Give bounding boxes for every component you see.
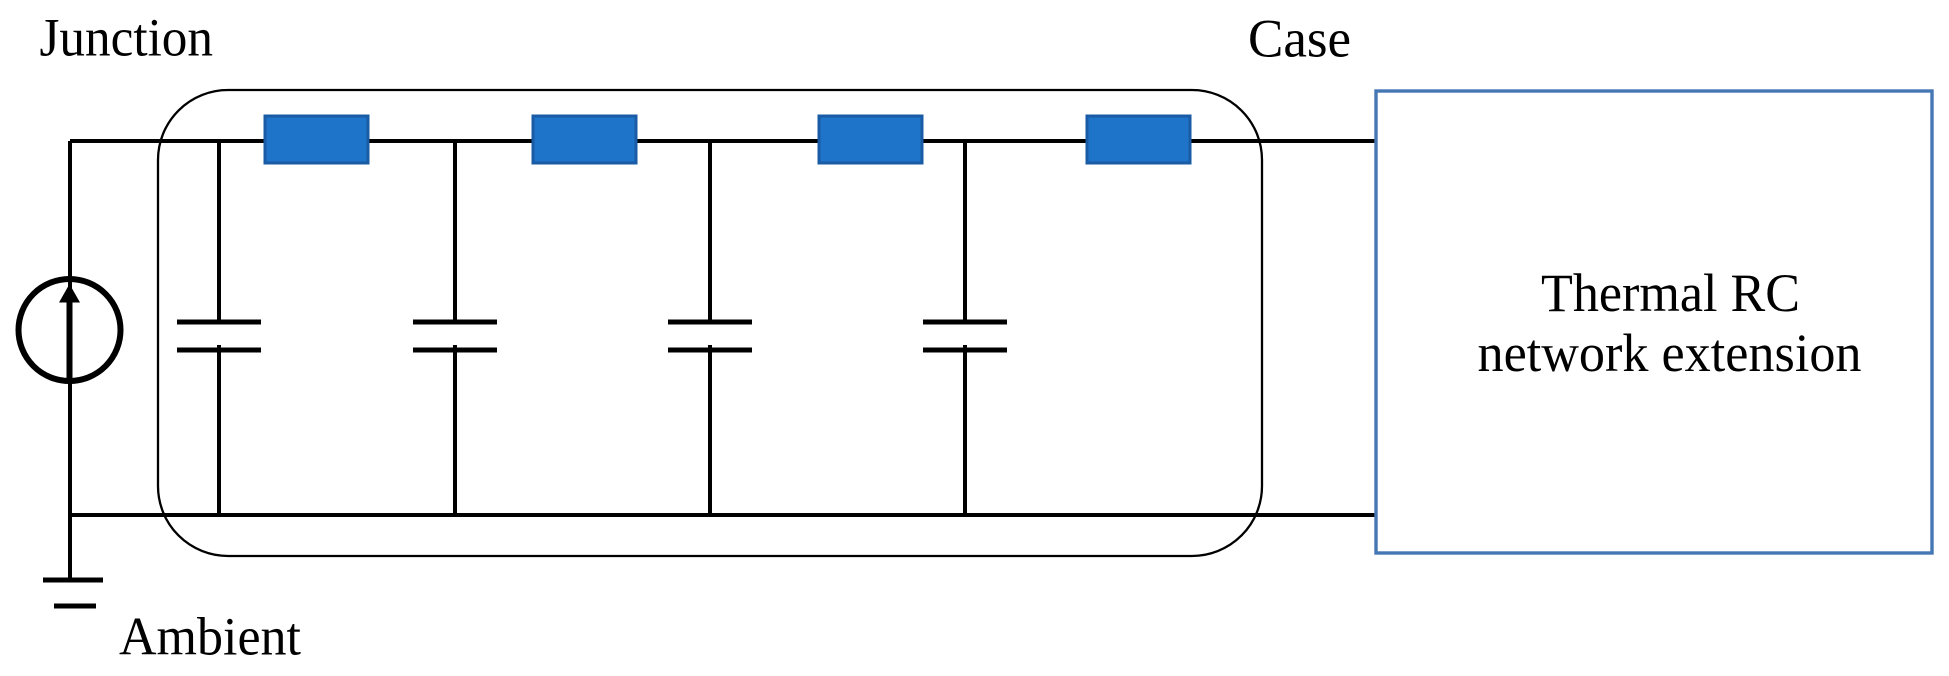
svg-text:Case: Case	[1248, 9, 1351, 69]
svg-text:Thermal RC: Thermal RC	[1541, 263, 1800, 323]
svg-text:network extension: network extension	[1478, 323, 1862, 383]
svg-text:Junction: Junction	[40, 8, 214, 68]
svg-text:Ambient: Ambient	[119, 607, 301, 667]
